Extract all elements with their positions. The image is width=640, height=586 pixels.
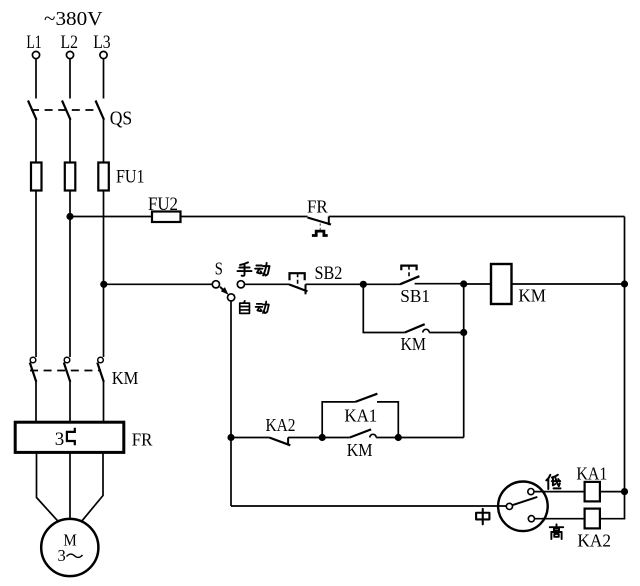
terminal L1 [32,51,39,58]
wire control row to switch S [104,283,213,285]
svg-text:FU1: FU1 [116,167,145,188]
node SB1/KM coil junction [460,280,467,287]
wire KA1 coil to rail [600,491,625,493]
wire L1 lower [35,191,37,358]
label 自动 [240,301,269,313]
wire self-hold branch vertical [363,284,405,332]
wire low to KA1 coil [534,491,585,493]
wire FU2 row left [70,216,152,218]
svg-text:L3: L3 [93,32,111,53]
wire L3 top [103,59,105,99]
wire L1 top [35,59,37,99]
wire L1 mid [35,120,37,163]
wire KA1 branch up-left [322,402,355,438]
svg-text:SB2: SB2 [315,263,343,284]
svg-text:FR: FR [132,430,153,450]
switch QS pole 2 blade [62,101,71,120]
pushbutton SB2 blade [289,284,308,291]
wire S to SB2 [245,283,290,285]
fuse FU2 [152,212,181,223]
svg-text:3: 3 [55,429,65,450]
fuse FU1 pole 1 [31,163,42,191]
FR thermal actuator dashes [319,224,321,231]
FR NC contact blade [308,218,332,225]
rotary blade [512,497,537,505]
wire KA2 coil to rail corner [600,492,625,519]
coil KA1 [585,482,600,502]
wire L2 top [69,59,71,99]
wire KM low to mid rail [376,437,464,439]
rotary high terminal [528,516,534,522]
motor M circle [41,519,98,576]
wire KA1 branch right-down [377,402,398,438]
pushbutton SB1 stem [408,266,410,278]
wire FR box to motor mid [69,452,71,519]
node junction L3/control [100,281,107,288]
wire node to KM coil [464,283,491,285]
contact KM self-hold hump [423,329,429,332]
pushbutton SB1 blade [400,276,419,284]
thermal relay FR box [15,422,124,452]
svg-text:FR: FR [307,197,328,217]
svg-text:KA1: KA1 [576,464,607,484]
svg-text:KA1: KA1 [344,405,377,425]
FR thermal actuator symbol [312,231,328,235]
wire SB1 to node [415,283,464,285]
svg-text:KA2: KA2 [266,415,296,435]
FR NC contact tick [328,217,330,226]
node self-hold junction [460,329,467,336]
contact KA1 NO blade [355,394,377,402]
QS linkage dashed [31,109,101,111]
contactor KM main pole 3 [97,357,104,382]
FR heater symbol [67,428,75,446]
node SB2/SB1 junction [360,281,367,288]
contact KM low blade [350,429,371,437]
node KA1 branch left junction [319,434,326,441]
svg-text:KA2: KA2 [577,530,611,550]
wire L2 lower [69,191,71,358]
svg-text:QS: QS [110,109,133,130]
wire bottom row [231,505,506,507]
wire node to KM low contact [322,437,350,439]
node KA1 rail junction [621,488,628,495]
label 中 [476,509,489,524]
rotary low terminal [528,489,534,495]
node KA2 row left junction [227,434,234,441]
svg-text:KM: KM [347,440,373,460]
KM linkage dashed [30,370,101,372]
wire L3 lower [103,191,105,358]
pushbutton SB2 cap [290,273,305,280]
wire L3 mid [103,120,105,163]
wire L2 to FR box [69,382,71,422]
terminal L2 [66,51,73,58]
wire SB2 to node [306,283,364,285]
contact KM self-hold blade [405,324,425,332]
svg-text:KM: KM [518,286,546,306]
svg-text:~380V: ~380V [44,8,103,30]
node right rail top junction [621,280,628,287]
label 高 [550,524,563,539]
rotary switch circle [498,482,548,532]
contactor KM main pole 1 [30,357,37,382]
wire L2 mid [69,120,71,163]
wire FR contact to right rail [329,216,625,218]
svg-text:SB1: SB1 [400,286,430,306]
svg-text:S: S [215,259,223,279]
switch S arrow blade [220,287,229,295]
switch QS pole 3 blade [96,101,105,120]
svg-text:KM: KM [112,368,139,388]
pushbutton SB1 cap [401,266,416,271]
svg-text:KM: KM [401,334,427,354]
wire high to KA2 coil [534,518,584,520]
svg-text:L1: L1 [26,32,41,53]
rotary pivot terminal [506,503,512,509]
node junction L2/FU2 [66,213,73,220]
pushbutton SB2 stem [297,273,299,287]
pushbutton SB2 tick [305,284,307,294]
wire mid rail vertical [463,284,465,438]
switch QS pole 1 blade [28,101,37,120]
node KA1 branch right junction [395,434,402,441]
wire FU2 to FR contact [181,216,308,218]
contact KA2 NC tick [287,438,289,446]
wire node to SB1 [363,283,400,285]
coil KM [491,264,512,304]
terminal L3 [100,51,107,58]
label 低 [546,475,560,489]
contactor KM main pole 2 [64,357,71,382]
contact KM low hump [370,434,376,437]
tilde of 3~ [67,554,83,557]
fuse FU1 pole 3 [98,163,109,191]
wire L3 to FR box [103,382,105,422]
wire L1 to FR box [35,382,37,422]
wire self-hold to rail [429,332,464,334]
svg-text:3: 3 [58,546,66,565]
switch S manual terminal [237,281,244,288]
svg-text:L2: L2 [61,32,79,53]
wire FR box to motor left [37,452,59,521]
label 手动 [237,262,269,275]
switch S auto terminal [228,294,235,301]
wire right rail [624,217,626,492]
wire FR box to motor right [82,452,104,521]
switch S common terminal [212,281,219,288]
wire node to KA2 contact [231,437,269,439]
wire KM coil to right rail [512,283,625,285]
wire left rail S-auto vertical [230,301,232,506]
coil KA2 [585,509,600,529]
contact KA2 NC blade [269,438,290,446]
wire KA2 to node [288,437,322,439]
fuse FU1 pole 2 [65,163,76,191]
